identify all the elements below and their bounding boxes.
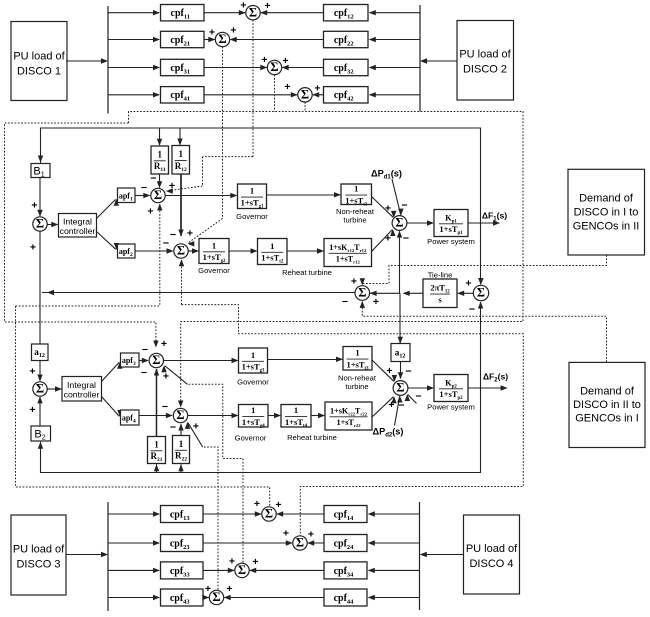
svg-text:−: − [142,344,148,356]
svg-text:+: + [264,0,270,12]
svg-text:Σ: Σ [477,286,485,300]
dashed route bottom sum4 to governor sum4 [203,447,218,590]
svg-text:−: − [162,401,168,413]
svg-text:DISCO 1: DISCO 1 [17,66,61,78]
wire a12 right to power sum2 [400,362,402,379]
summing junction governor1 [151,188,165,202]
wire bus to cpf43 [108,597,159,599]
wire cpf44 to sum [224,597,324,599]
svg-text:+: + [282,55,288,67]
svg-text:+: + [308,529,314,541]
svg-text:Σ: Σ [36,217,44,231]
block governor2 [199,239,229,264]
wire tie block output left [404,292,424,294]
wire turbine4 to reheat2 [311,415,324,417]
block governor4 [239,405,269,428]
block cpf12 [324,5,369,21]
wire cpf24 to sum [308,542,324,544]
svg-text:−: − [469,304,475,316]
wire dF2 output [468,387,507,389]
svg-text:−: − [170,229,176,241]
wire governor sum3 to governor3 block [164,360,238,362]
wire IC1 to apf1 [97,200,116,219]
wire R12 to governor sum2 [180,174,182,236]
svg-text:1: 1 [250,186,254,196]
svg-text:Σ: Σ [36,382,44,396]
dashed route top collector [5,123,156,346]
block reheat turbine 1 [324,239,372,267]
svg-text:1: 1 [354,184,358,194]
summing junction power system 1 [392,216,407,231]
svg-text:1: 1 [179,149,184,159]
svg-text:1: 1 [158,149,163,159]
svg-text:Σ: Σ [296,536,304,550]
svg-text:1: 1 [251,350,255,360]
wire apf4 to governor sum4 [139,415,172,417]
wire governor4 to turbine4 [268,415,280,417]
wire feedback to R11 [159,128,161,145]
svg-text:Σ: Σ [212,590,220,604]
svg-text:+: + [226,583,232,595]
block a12 left [32,344,49,361]
block apf4 [121,410,140,425]
wire B2 to ACE2 [39,397,41,426]
svg-text:1: 1 [154,439,159,449]
block non-reheat turbine 1 [341,184,372,205]
wire bus to cpf33 [108,569,159,571]
svg-text:+: + [187,228,193,240]
svg-text:Σ: Σ [238,563,246,577]
wire demand sum2 down [222,47,224,219]
svg-text:+: + [284,81,290,93]
svg-text:Reheat turbine: Reheat turbine [282,268,332,277]
summing junction power system 2 [393,381,408,396]
wire bus to cpf14 [369,513,420,515]
block cpf44 [324,589,367,606]
svg-text:+: + [230,25,236,37]
block cpf11 [161,5,205,21]
svg-text:DISCO 2: DISCO 2 [463,64,507,76]
svg-text:+: + [29,366,35,378]
svg-text:Demand of: Demand of [579,193,634,205]
svg-text:1: 1 [179,439,184,449]
svg-text:turbine: turbine [343,216,366,225]
svg-text:−: − [163,238,169,250]
dashed demand I-to-II into tie left sum [363,255,607,284]
svg-text:Σ: Σ [152,353,160,367]
block apf1 [118,188,136,203]
wire cpf14 to sum [277,513,324,515]
wire governor3 to NRT3 [268,359,343,361]
svg-text:Σ: Σ [154,188,162,202]
wire bus to cpf12 [370,12,421,14]
svg-text:−: − [170,422,176,434]
svg-text:Σ: Σ [177,244,185,258]
block 1/R12 [172,146,190,175]
wire cpf11 to sum [204,12,245,14]
block power system 2 [434,375,468,402]
svg-text:Power system: Power system [427,237,475,246]
svg-text:+: + [193,421,199,433]
svg-text:+: + [351,276,357,288]
svg-text:+: + [385,203,391,215]
svg-text:controller: controller [64,389,100,399]
wire DISCO1 to bus [66,60,107,62]
wire tie error to ACE1 feedback [42,292,355,294]
wire R11 to governor sum1 [159,174,161,188]
wire tie feedback to ACE1 [39,231,41,292]
block Integral controller 1 [59,214,97,238]
wire bus to cpf42 [370,94,421,96]
svg-text:1: 1 [212,240,216,250]
wire tie to power sum1 [399,231,401,293]
summing junction ACE2 [33,382,47,396]
wire dF2 branch to tie sum bottom [480,302,482,388]
block 1/R22 [173,436,190,464]
svg-text:Tie-line: Tie-line [428,271,453,280]
summing junction bottom row 2 [293,536,307,550]
dashed route bottom-left collector to governor1 [16,305,160,307]
svg-text:−: − [398,400,404,412]
wire bus to cpf22 [370,39,421,41]
wire apf3 to governor sum3 [139,360,148,362]
wire cpf13 to sum [203,513,261,515]
wire DISCO4 to bus [421,554,464,556]
wire bus to cpf41 [108,94,159,96]
wire cpf34 to sum [250,569,324,571]
block cpf24 [324,535,367,552]
wire dF1 feedback top [41,128,481,223]
block non-reheat turbine 3 [343,347,372,371]
block reheat turbine 2 [325,402,372,430]
wire governor sum4 to governor4 block [188,415,238,417]
summing junction top row 3 [267,60,281,74]
block apf2 [118,244,136,258]
block cpf32 [324,59,369,75]
svg-text:1: 1 [251,405,255,415]
wire cpf41 to sum [204,94,297,96]
wire reheat2 to power sum2 [372,397,393,417]
svg-text:DISCO in II to: DISCO in II to [573,399,641,411]
svg-text:+: + [169,180,175,192]
summing junction ACE1 [33,217,47,231]
wire bus to cpf31 [108,67,159,69]
svg-text:1: 1 [270,241,274,251]
svg-text:+: + [31,200,37,212]
bus vertical left bottom [107,502,109,611]
svg-text:+: + [388,399,394,411]
svg-text:+: + [252,556,258,568]
summing junction bottom row 1 [262,507,276,521]
svg-text:+: + [229,556,235,568]
wire apf1 to governor sum1 [135,195,150,197]
wire bus to cpf44 [369,597,420,599]
svg-text:PU load of: PU load of [466,543,518,555]
wire NRT3 to power sum2 [372,360,394,381]
svg-text:−: − [342,296,348,308]
wire IC1 to apf2 [97,232,116,250]
wire demand sum1 jog to governor1 [203,156,254,158]
wire dF1 output [468,222,499,224]
wire ACE2 to integral controller 2 [47,388,61,390]
summing junction governor4 [173,408,187,422]
wire a12 to ACE2 [39,361,41,381]
svg-text:+: + [163,371,169,383]
svg-text:+: + [161,338,167,350]
svg-text:Governor: Governor [235,434,267,443]
svg-text:−: − [405,366,411,378]
block apf3 [121,353,140,367]
svg-text:1: 1 [294,405,298,415]
svg-text:DISCO 4: DISCO 4 [469,558,513,570]
svg-text:−: − [141,367,147,379]
block cpf21 [161,31,205,47]
svg-text:Σ: Σ [270,60,278,74]
wire demand sum2 diagonal to governor2 [189,219,223,243]
wire DISCO3 to bus [66,554,107,556]
block power system 1 [434,210,468,237]
wire governor2 to turbine2 [229,250,257,252]
wire dF2 feedback to B2 [41,388,481,473]
wire power sum2 to Kp2 [408,387,433,389]
svg-text:DISCO in I to: DISCO in I to [574,207,639,219]
dashed demand II-to-I into tie left sum [362,302,606,363]
svg-text:GENCOs in II: GENCOs in II [573,221,640,233]
block turbine2 [258,239,288,265]
svg-text:Σ: Σ [396,381,404,395]
svg-text:+: + [205,583,211,595]
block cpf23 [161,535,204,552]
svg-text:Governor: Governor [236,212,268,221]
dashed route bottom sum3 to governor sum3 [188,384,244,562]
svg-text:controller: controller [60,226,96,236]
wire cpf12 to sum [261,12,324,14]
svg-text:Governor: Governor [198,266,230,275]
wire R21 to governor sum3 [156,369,158,437]
block Demand of DISCO in II to GENCOs in I [569,362,645,447]
svg-text:Demand of: Demand of [580,386,635,398]
block cpf22 [324,31,369,47]
block Integral controller 2 [62,377,102,402]
wire B1 to ACE1 sum [39,178,41,217]
svg-text:turbine: turbine [345,382,368,391]
wire demand from below into governor sum1 [159,204,161,305]
wire dPd1 to power sum1 [392,179,401,215]
block cpf41 [161,87,205,103]
block cpf34 [324,562,367,579]
svg-text:+: + [254,498,260,510]
wire demand from below into governor sum2 [181,260,183,305]
wire bus to cpf11 [108,12,159,14]
wire demand sum4 down [304,102,306,112]
svg-text:Σ: Σ [358,286,366,300]
wire demand sum3 down [274,75,276,112]
wire stub into power sum2 from lower right [408,395,417,404]
wire bus to cpf13 [108,513,159,515]
svg-text:+: + [283,528,289,540]
bus vertical left top [107,6,109,114]
wire bus to cpf23 [108,542,159,544]
wire reheat1 to power sum1 [372,230,393,252]
wire cpf31 to sum [204,67,267,69]
summing junction bottom row 4 [209,590,223,604]
block cpf31 [161,59,205,75]
dashed route bottom-right collector to governor2 [182,305,524,535]
svg-text:−: − [401,200,407,212]
block B2 [31,426,51,441]
wire cpf22 to sum [230,39,323,41]
svg-text:+: + [261,54,267,66]
wire cpf43 to sum [203,597,209,599]
wire cpf23 to sum [203,542,292,544]
svg-text:Governor: Governor [237,378,269,387]
svg-text:Σ: Σ [395,216,403,230]
wire bus to cpf32 [370,67,421,69]
summing junction top row 4 [298,88,312,102]
wire tie to a12 down [399,293,401,343]
block cpf14 [324,506,367,523]
svg-text:Power system: Power system [427,403,475,412]
wire IC2 to apf4 [102,397,120,417]
svg-text:Σ: Σ [218,32,226,46]
summing junction bottom row 3 [235,563,249,577]
svg-text:PU load of: PU load of [13,544,65,556]
block cpf13 [161,506,204,523]
svg-text:+: + [314,83,320,95]
svg-text:Σ: Σ [265,507,273,521]
wire IC2 to apf3 [102,363,120,382]
block turbine4 [281,405,311,428]
summing junction top row 2 [215,32,229,46]
svg-text:Σ: Σ [249,5,257,19]
svg-text:−: − [403,233,409,245]
summing junction top row 1 [246,6,260,20]
wire apf2 to governor sum2 [135,250,173,252]
svg-text:+: + [465,278,471,290]
svg-text:Σ: Σ [301,87,309,101]
wire a12 vertical from tie junction [39,293,41,344]
wire feedback to R12 [179,128,181,145]
wire bus to cpf34 [369,569,420,571]
bus vertical right bottom [419,502,421,610]
svg-text:−: − [415,391,421,403]
wire turbine2 to reheat1 [287,250,323,252]
svg-text:+: + [30,242,36,254]
block a12 right [391,344,410,362]
wire dF1 branch to tie sum [480,223,482,284]
summing junction tie right [473,285,488,300]
wire DISCO2 to bus [421,60,457,62]
svg-text:+: + [240,0,246,12]
block governor3 [239,348,268,373]
svg-text:−: − [150,173,156,185]
block PU load of DISCO 1 [11,22,67,101]
bus vertical right top [419,5,421,112]
wire dPd2 to power sum2 [395,396,400,425]
svg-text:PU load of: PU load of [459,49,511,61]
wire bus to cpf21 [108,39,159,41]
block cpf42 [324,87,369,103]
wire demand sum1 down [252,20,254,157]
svg-text:+: + [385,233,391,245]
wire NRT1 to power sum1 [372,197,394,218]
wire bus to cpf24 [369,542,420,544]
svg-text:+: + [275,499,281,511]
block B1 [31,164,50,178]
wire governor1 to non-reheat turbine1 [267,194,341,196]
svg-text:Reheat turbine: Reheat turbine [287,433,337,442]
svg-text:1: 1 [355,348,359,358]
svg-text:−: − [141,182,147,194]
wire cpf42 to sum [313,94,324,96]
block PU load of DISCO 2 [457,21,514,101]
svg-text:+: + [147,206,153,218]
svg-text:Σ: Σ [176,408,184,422]
block cpf33 [161,562,204,579]
wire governor sum1 to governor1 block [165,195,236,197]
wire governor sum2 to governor2 block [188,250,198,252]
summing junction tie left [355,286,370,301]
wire cpf33 to sum [203,569,234,571]
block 1/R21 [148,437,166,464]
svg-text:GENCOs in I: GENCOs in I [575,413,639,425]
block PU load of DISCO 3 [11,515,66,595]
svg-text:+: + [386,365,392,377]
summing junction governor2 [174,244,188,258]
wire ACE1 to integral controller [47,224,57,226]
summing junction governor3 [149,353,163,367]
wire tie right sum to tie block [458,292,473,294]
block PU load of DISCO 4 [464,515,520,594]
wire cpf32 to sum [282,67,323,69]
wire power sum1 to Kp1 [407,222,433,224]
svg-text:DISCO 3: DISCO 3 [16,559,60,571]
wire cpf21 to sum [204,39,215,41]
wire R22 to governor sum4 [180,424,182,436]
block cpf43 [161,589,204,606]
svg-text:+: + [209,27,215,39]
svg-text:+: + [373,296,379,308]
svg-text:+: + [29,404,35,416]
block Demand of DISCO in I to GENCOs in II [568,169,645,255]
svg-text:PU load of: PU load of [13,51,65,63]
wire feedback to R22 [180,464,182,472]
block governor1 [238,184,267,209]
block 1/R11 [151,146,169,174]
wire feedback to R21 [156,464,158,472]
